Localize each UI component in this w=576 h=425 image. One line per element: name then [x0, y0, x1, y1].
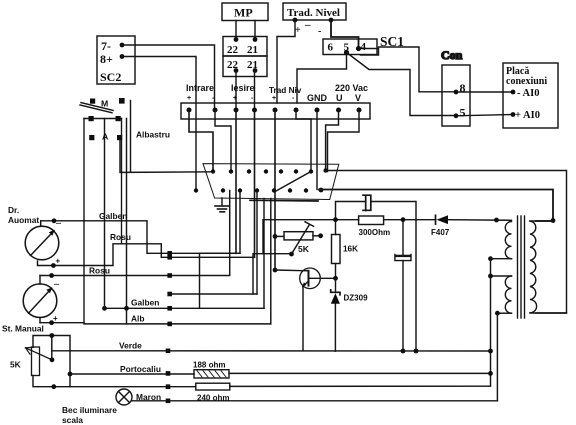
wire 22 to Iesire+: [235, 71, 237, 111]
resistor 300 Ohm: [359, 216, 391, 237]
node line for regulator: corner at 263: [263, 220, 359, 254]
svg-text:8+: 8+: [100, 52, 113, 66]
switch diagonal inside DB: [276, 172, 311, 192]
wire from A contact to DB pin1: [120, 140, 213, 172]
svg-text:Galben: Galben: [99, 211, 127, 221]
svg-text:+: +: [295, 25, 301, 36]
thick bottom edge segment of DB: [250, 199, 318, 202]
svg-text:5K: 5K: [298, 244, 310, 254]
svg-text:GND: GND: [307, 93, 328, 103]
svg-text:Bec iluminare: Bec iluminare: [62, 405, 117, 415]
zener DZ309: [331, 278, 368, 351]
wire line B to transformer primary top: [319, 190, 553, 222]
wire secondary mid down: [490, 259, 492, 386]
Placa conexiuni box: [503, 63, 558, 128]
wire TradNiv- to DB pin: [296, 110, 311, 172]
svg-text:Trad. Nivel: Trad. Nivel: [287, 7, 340, 19]
Trad Nivel terminals: [293, 18, 334, 23]
wire Con8 to -AI0: [456, 91, 513, 93]
wire DB pin down-left jog: [200, 191, 241, 309]
connector block 22-21 upper: [223, 37, 267, 57]
strip pin dots: [187, 108, 362, 113]
wire SC2 7- to strip Intrare-: [122, 45, 215, 110]
svg-text:22: 22: [227, 44, 239, 56]
SC1 pin dots: [344, 46, 361, 55]
svg-text:conexiuni: conexiuni: [506, 76, 547, 87]
transistor Q1: [275, 268, 336, 351]
svg-text:8: 8: [460, 81, 466, 95]
svg-text:Intrare: Intrare: [186, 83, 214, 93]
svg-text:4: 4: [361, 41, 367, 53]
primary coil: [530, 221, 537, 313]
svg-text:+: +: [187, 95, 191, 102]
SC1 connector: [323, 39, 379, 55]
svg-text:Iesire: Iesire: [231, 83, 255, 93]
svg-text:+: +: [272, 95, 276, 102]
Con box: [441, 48, 470, 126]
junction dot galben2 left: [102, 306, 107, 311]
Trad. Nivel box: [283, 3, 346, 20]
wire Iesire- down: [254, 110, 256, 257]
svg-text:–: –: [304, 19, 311, 31]
240 ohm line + resistor: [70, 386, 196, 388]
svg-text:U: U: [336, 93, 343, 103]
secondary junction dots: [488, 256, 500, 315]
capacitor C1 series branch: [336, 202, 366, 220]
svg-text:7-: 7-: [101, 39, 111, 53]
svg-text:MP: MP: [234, 6, 253, 20]
junction dot on diode-transformer wire: [494, 218, 499, 223]
wire Iesire+ down: [235, 110, 237, 253]
svg-text:Albastru: Albastru: [136, 130, 170, 140]
svg-text:+: +: [233, 95, 237, 102]
svg-text:300Ohm: 300Ohm: [359, 228, 391, 237]
ground: [215, 198, 229, 212]
junction squares column: [166, 251, 172, 403]
wire Trad Nivel - to SC1 pin4: [331, 20, 359, 49]
transformer T1: [491, 216, 567, 318]
diode F407: [431, 215, 450, 237]
svg-text:-: -: [318, 26, 321, 37]
wire 300ohm to diode: [384, 219, 436, 221]
wire TradNiv+ down: [274, 110, 276, 270]
svg-text:+: +: [56, 257, 61, 266]
wire SC1 pin5 diagonal to Con pin5: [347, 53, 457, 116]
svg-text:21: 21: [247, 44, 258, 56]
DB connector trapezoid: [203, 164, 339, 200]
svg-text:St. Manual: St. Manual: [2, 324, 44, 334]
svg-text:6: 6: [328, 42, 334, 54]
svg-text:+ AI0: + AI0: [515, 110, 540, 121]
wire MP to 22-21 box: [235, 21, 237, 41]
svg-text:Verde: Verde: [119, 341, 142, 351]
meter M2: [23, 276, 60, 324]
wire Intrare- to DB pin2: [215, 110, 231, 172]
svg-text:Rosu: Rosu: [89, 266, 110, 276]
Placa terminal dots: [511, 90, 516, 117]
svg-text:5: 5: [460, 106, 466, 120]
svg-text:Con: Con: [441, 48, 463, 62]
SC2 box: [97, 36, 135, 84]
svg-text:Auomat: Auomat: [8, 215, 39, 225]
meter2 bottom wire: [40, 322, 84, 324]
Con pin dots: [454, 90, 459, 119]
svg-text:220 Vac: 220 Vac: [335, 83, 368, 93]
wire SC1 right to Con pin8: [379, 47, 457, 92]
wire 21 to Iesire-: [254, 71, 256, 111]
wire U to DB pin: [326, 110, 339, 171]
svg-text:–: –: [53, 279, 60, 290]
wire SC2 8+ down to connector row: [122, 57, 196, 191]
upper secondary coil: [505, 222, 511, 259]
svg-text:SC2: SC2: [100, 70, 121, 84]
junction dots 22-21 lower pins: [234, 68, 258, 73]
connector block 22-21 lower: [223, 56, 267, 77]
wire Intrare+ to DB pin1: [189, 110, 213, 172]
svg-text:DZ309: DZ309: [344, 294, 369, 303]
MP box: [222, 3, 268, 21]
potentiometer 5K (middle): [284, 222, 314, 254]
svg-text:A: A: [102, 132, 109, 142]
wire Con5 to +AI0: [456, 115, 513, 116]
svg-text:5K: 5K: [10, 360, 21, 370]
wire SC1 pin5 down-left to strip TradNiv-: [297, 53, 347, 104]
svg-text:Rosu: Rosu: [110, 232, 131, 242]
resistor 16K: [332, 235, 359, 264]
junction dot line B corner: [551, 218, 556, 223]
lamp (bec): [116, 389, 132, 405]
wiper wire to left: [253, 254, 292, 294]
lower secondary coil: [491, 275, 512, 277]
DB top row pins: [211, 168, 328, 173]
wire line A to transformer secondary bottom: [326, 171, 567, 314]
meter M1 (Dr. Auomat): [8, 205, 62, 266]
core: [517, 216, 519, 318]
svg-text:- AI0: - AI0: [517, 88, 539, 99]
svg-text:Alb: Alb: [131, 314, 145, 324]
junction dots MP pins: [234, 37, 258, 42]
maron wire: [132, 400, 497, 402]
junction node collector: [333, 276, 338, 281]
wire V down: [328, 110, 360, 172]
svg-text:F407: F407: [431, 228, 450, 237]
SC2 terminal dots: [120, 43, 125, 59]
svg-text:scala: scala: [62, 415, 83, 425]
wire diode to transformer upper coil: [448, 219, 512, 222]
wire GND down: [316, 110, 318, 190]
svg-text:188 ohm: 188 ohm: [193, 361, 225, 370]
M/A switch box: [80, 98, 125, 323]
junction node 16K top: [333, 217, 338, 222]
wire Trad Nivel + down to strip: [277, 20, 295, 103]
capacitor C2 vertical: [395, 217, 411, 351]
St. Manual potentiometer: [2, 324, 72, 390]
svg-text:16K: 16K: [343, 245, 358, 254]
polarity ticks: [187, 95, 295, 102]
wire y294 from wiper: [170, 293, 257, 295]
svg-text:V: V: [355, 93, 361, 103]
svg-text:Galben: Galben: [131, 298, 159, 308]
wire secondary bottom down: [496, 313, 498, 401]
svg-text:Dr.: Dr.: [8, 205, 19, 215]
DB bottom row pins: [194, 188, 324, 193]
svg-text:Portocaliu: Portocaliu: [120, 364, 161, 374]
svg-text:Trad Niv: Trad Niv: [269, 86, 302, 95]
terminal strip box: [181, 103, 370, 119]
